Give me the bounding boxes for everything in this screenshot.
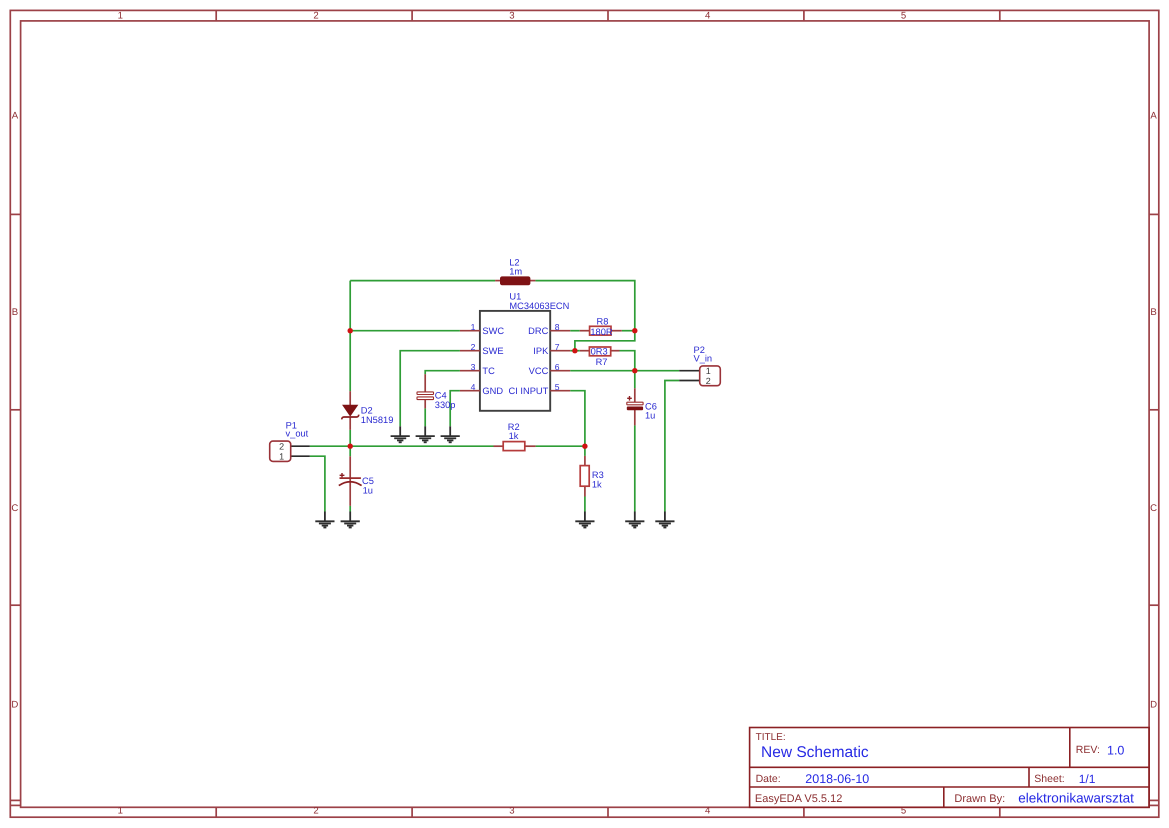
svg-text:C: C [1150, 503, 1157, 514]
wire SWE to ground [400, 351, 460, 427]
ground under C5 [341, 512, 360, 528]
frame row ticks right [1149, 214, 1159, 800]
wire TC to C4 [425, 371, 460, 375]
svg-text:1: 1 [471, 322, 476, 332]
svg-text:1k: 1k [509, 431, 519, 441]
ground under P1 [315, 512, 334, 528]
resistor R2 leads [494, 445, 536, 447]
svg-text:3: 3 [509, 806, 514, 817]
svg-text:elektronikawarsztat: elektronikawarsztat [1018, 790, 1134, 805]
frame row labels left [11, 111, 18, 711]
wire SWC branch [350, 330, 460, 332]
svg-text:VCC: VCC [529, 366, 549, 376]
op-amp U1 body [480, 311, 550, 411]
wire GND pin to ground [450, 391, 460, 427]
ground under C6 [625, 512, 644, 528]
svg-text:CI INPUT: CI INPUT [509, 386, 549, 396]
svg-text:1: 1 [118, 11, 123, 22]
svg-text:1k: 1k [592, 480, 602, 490]
U1 pin stubs right [550, 331, 570, 391]
connector P2 body [700, 366, 721, 386]
connector P1 pin numbers [279, 441, 284, 461]
svg-text:1m: 1m [509, 267, 522, 277]
svg-text:MC34063ECN: MC34063ECN [509, 301, 569, 311]
svg-text:REV:: REV: [1076, 744, 1100, 756]
svg-text:D: D [1150, 699, 1157, 710]
junction node DRC [632, 328, 637, 333]
svg-text:3: 3 [471, 362, 476, 372]
U1 pin names left [482, 326, 504, 396]
ground under SWE wire [391, 426, 410, 442]
svg-text:2018-06-10: 2018-06-10 [805, 772, 869, 786]
frame row labels right [1150, 111, 1157, 711]
svg-text:EasyEDA V5.5.12: EasyEDA V5.5.12 [755, 793, 842, 805]
ground under GND pin [441, 426, 460, 442]
wire R8 right to DRC node [622, 330, 635, 332]
frame column labels bottom [118, 806, 907, 817]
inductor L2 leads [495, 280, 535, 282]
resistor R7 leads [580, 350, 620, 352]
wire R7 right down to VCC node [620, 351, 635, 371]
svg-text:3: 3 [509, 11, 514, 22]
junction node VCC [632, 368, 637, 373]
svg-text:Drawn By:: Drawn By: [954, 793, 1005, 805]
svg-text:DRC: DRC [528, 326, 548, 336]
svg-text:0R3: 0R3 [591, 347, 608, 357]
frame column labels top [118, 11, 907, 22]
wire C5 bottom to ground [349, 506, 351, 512]
frame row ticks left [10, 214, 20, 800]
capacitor C5 leads [349, 456, 351, 506]
svg-text:New Schematic: New Schematic [761, 744, 869, 761]
wire C6 top [634, 371, 636, 389]
svg-text:1: 1 [118, 806, 123, 817]
svg-text:v_out: v_out [286, 429, 309, 439]
svg-text:IPK: IPK [533, 346, 549, 356]
capacitor C6 plus [627, 396, 632, 401]
svg-text:5: 5 [555, 382, 560, 392]
diode D2 schottky cathode [342, 415, 359, 420]
wire v_out horizontal to R2 [310, 445, 494, 447]
svg-text:7: 7 [555, 342, 560, 352]
svg-text:V_in: V_in [694, 353, 713, 363]
U1 pin stubs left [460, 331, 480, 391]
svg-text:SWC: SWC [482, 326, 504, 336]
svg-text:SWE: SWE [482, 346, 503, 356]
frame left band bottom closure [10, 804, 20, 806]
svg-text:2: 2 [313, 11, 318, 22]
wire D2 cathode to v_out node [349, 430, 351, 446]
wire P1 pin1 to ground [310, 456, 325, 511]
frame column ticks top [216, 10, 1000, 21]
U1 pin names right [509, 326, 550, 396]
svg-text:B: B [12, 307, 18, 318]
frame column ticks bottom [216, 807, 1000, 817]
wire P2 pin2 to ground [665, 381, 679, 512]
svg-text:Sheet:: Sheet: [1034, 773, 1064, 785]
diode D2 body [343, 405, 357, 416]
wire R3 bottom to ground [584, 497, 586, 512]
connector P2 pin lines [679, 371, 700, 381]
svg-text:1u: 1u [363, 485, 373, 495]
U1 pin numbers left [471, 322, 476, 392]
svg-text:5: 5 [901, 11, 906, 22]
svg-text:4: 4 [471, 382, 476, 392]
resistor R8 [590, 326, 611, 335]
wire VCC to P2 pin1 [570, 370, 679, 372]
capacitor C5 top plate [340, 477, 361, 479]
junction node v_out [348, 444, 353, 449]
svg-text:2: 2 [706, 376, 711, 386]
connector P1 pin lines [291, 446, 310, 456]
wire pin8 to R8 [570, 330, 580, 332]
svg-text:1u: 1u [645, 411, 655, 421]
ground under R3 [575, 512, 594, 528]
svg-text:2: 2 [279, 441, 284, 451]
svg-text:TC: TC [482, 366, 495, 376]
svg-text:A: A [12, 111, 19, 122]
wire left vertical from top wire to D2 anode [349, 281, 351, 392]
capacitor C5 bottom plate arc [339, 482, 362, 486]
svg-text:R8: R8 [597, 316, 609, 326]
svg-text:Date:: Date: [756, 773, 781, 785]
wire pin5 down to R2 node [570, 391, 585, 447]
svg-text:4: 4 [705, 806, 711, 817]
frame right band bottom closure [1149, 804, 1159, 806]
wire C6 bottom to ground [634, 425, 636, 511]
wire R2 right to node [536, 445, 585, 447]
connector P1 body [270, 441, 291, 461]
wire pin7 to R7 [570, 350, 580, 352]
svg-text:C: C [11, 503, 18, 514]
wire C5 top [349, 446, 351, 456]
svg-text:R7: R7 [596, 357, 608, 367]
svg-text:1.0: 1.0 [1107, 743, 1124, 757]
resistor R3 [580, 466, 589, 487]
svg-text:8: 8 [555, 322, 560, 332]
capacitor C5 plus [340, 473, 345, 477]
svg-text:D: D [11, 699, 18, 710]
junction node R2-R3 [582, 444, 587, 449]
capacitor C4 plates [417, 392, 434, 400]
capacitor C4 leads [424, 374, 426, 408]
wire top horizontal right of L2 and down to DRC node [535, 281, 634, 331]
svg-text:4: 4 [705, 11, 711, 22]
resistor R8 leads [580, 330, 622, 332]
svg-text:2: 2 [313, 806, 318, 817]
junction node IPK [572, 348, 577, 353]
U1 pin numbers right [555, 322, 560, 392]
svg-text:GND: GND [482, 386, 503, 396]
capacitor C6 leads [634, 388, 636, 425]
ground under P2 pin2 [655, 512, 674, 528]
svg-text:330p: 330p [435, 400, 456, 410]
svg-text:2: 2 [471, 342, 476, 352]
diode D2 leads [349, 391, 351, 430]
svg-text:180R: 180R [590, 327, 613, 337]
wire C4 bottom to ground [424, 408, 426, 426]
connector P2 pin numbers [706, 366, 711, 386]
svg-text:1N5819: 1N5819 [361, 415, 394, 425]
ground under C4 [416, 426, 435, 442]
title block outline [750, 728, 1150, 808]
svg-text:1/1: 1/1 [1079, 772, 1096, 786]
wire top horizontal left of L2 [350, 280, 495, 282]
resistor R2 [503, 442, 525, 451]
svg-text:1: 1 [706, 366, 711, 376]
svg-text:A: A [1150, 111, 1157, 122]
resistor R7 [589, 347, 610, 356]
svg-text:TITLE:: TITLE: [756, 732, 786, 743]
junction node SWC [348, 328, 353, 333]
wire R3 top [584, 446, 586, 456]
capacitor C6 top plate [627, 402, 643, 405]
svg-text:6: 6 [555, 362, 560, 372]
svg-text:B: B [1150, 307, 1156, 318]
inductor L2 [501, 277, 530, 285]
capacitor C6 bottom plate [627, 407, 643, 411]
svg-text:1: 1 [279, 451, 284, 461]
wire DRC node down left to IPK node [575, 331, 635, 351]
resistor R3 leads [584, 456, 586, 497]
